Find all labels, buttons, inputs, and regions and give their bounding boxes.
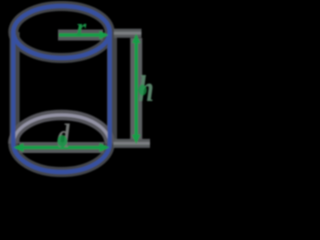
- cylinder top ellipse: [13, 6, 109, 58]
- cylinder bottom front arc: [13, 144, 109, 172]
- cylinder right wall: [108, 32, 112, 144]
- hidden back edge of bottom ellipse (gray): [13, 115, 109, 143]
- height dimension line (green, double arrow): [134, 40, 137, 138]
- radius arrow (green, pointing right): [59, 33, 100, 36]
- halo under cylinder outline: [13, 6, 150, 172]
- cylinder left wall: [11, 32, 15, 144]
- top extension tick (gray): [114, 32, 142, 35]
- svg-text:r: r: [77, 14, 87, 41]
- bottom extension tick (gray): [114, 142, 151, 145]
- diameter arrow (green, double-headed): [21, 146, 102, 149]
